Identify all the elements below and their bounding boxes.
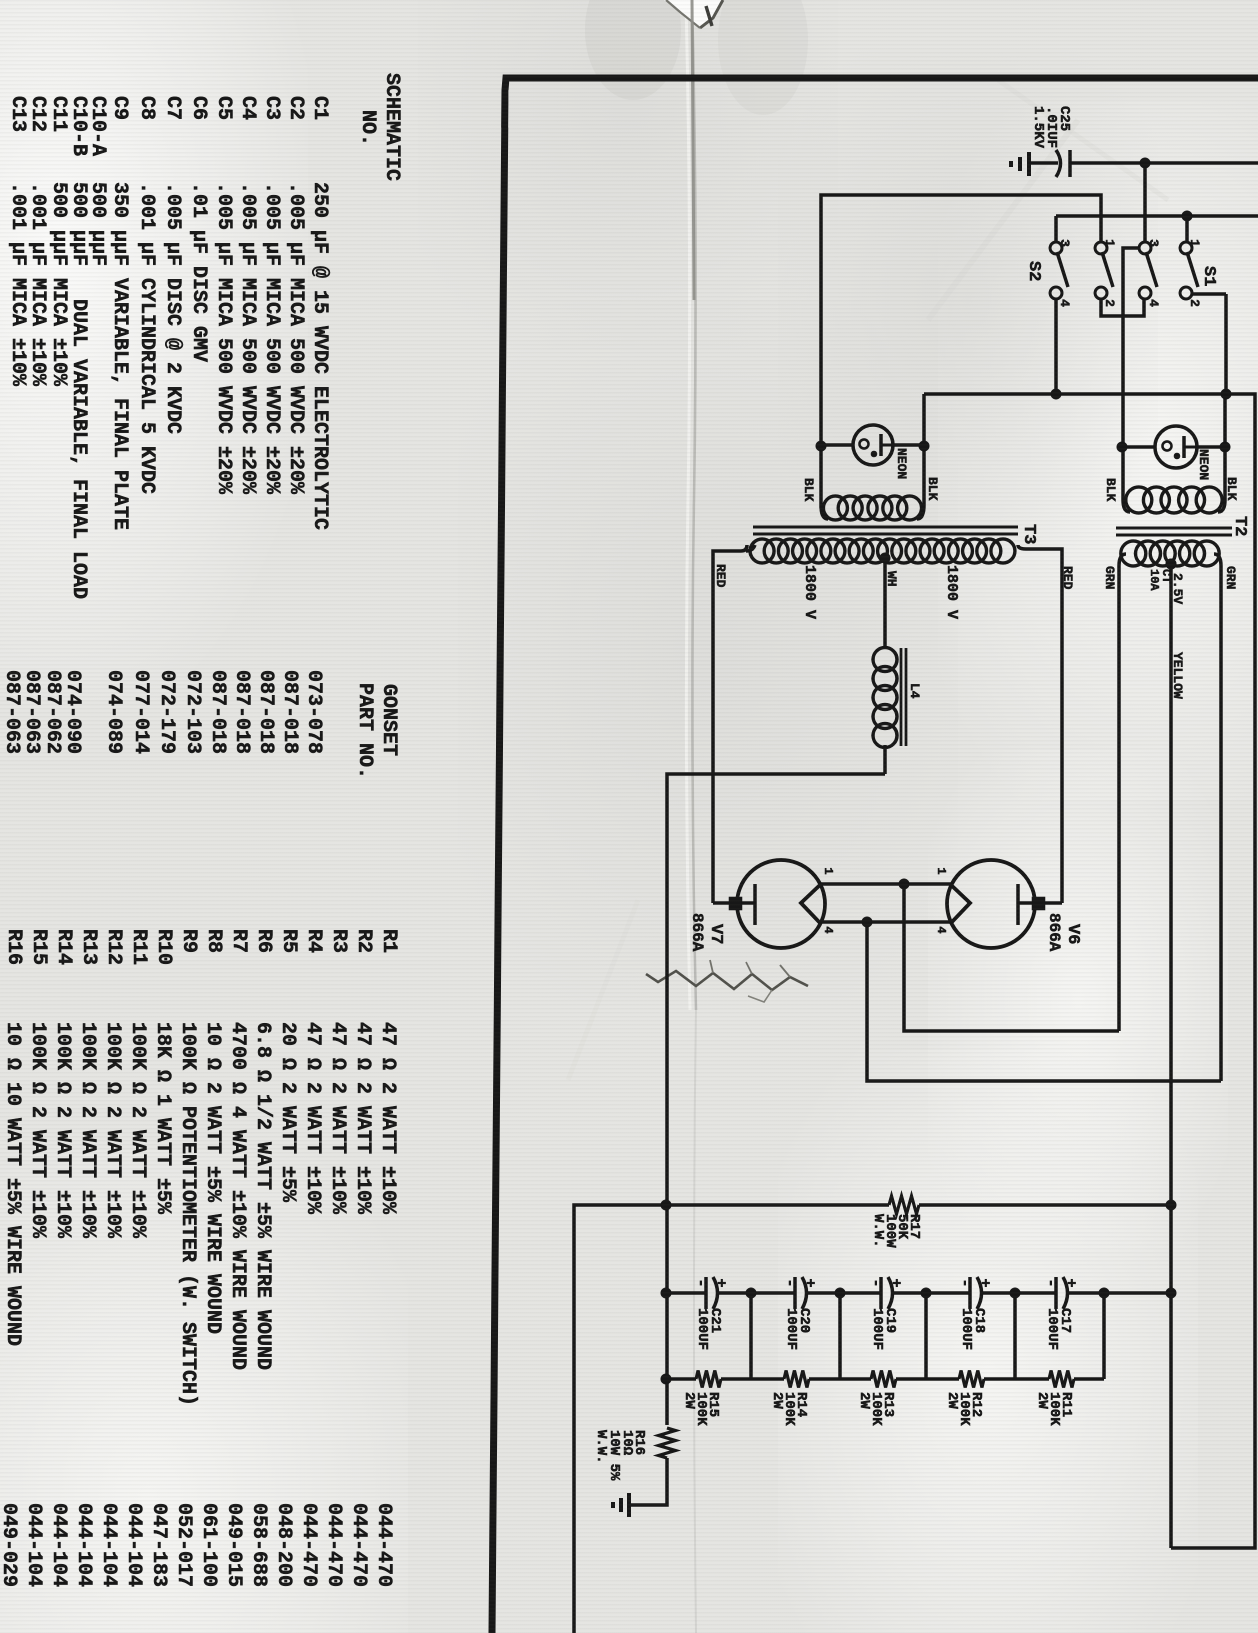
svg-text:10A: 10A: [1147, 569, 1161, 591]
svg-text:2W: 2W: [1034, 1392, 1050, 1409]
svg-text:.01 μF DISC GMV: .01 μF DISC GMV: [187, 182, 210, 362]
svg-text:044-470: 044-470: [372, 1503, 395, 1587]
svg-text:R2: R2: [352, 929, 375, 953]
svg-text:C12: C12: [26, 96, 49, 132]
svg-text:044-470: 044-470: [347, 1503, 370, 1587]
svg-text:V7: V7: [706, 924, 725, 944]
svg-text:R10: R10: [152, 929, 175, 965]
svg-text:C7: C7: [161, 96, 184, 120]
svg-text:YELLOW: YELLOW: [1170, 652, 1185, 699]
svg-text:100UF: 100UF: [1044, 1308, 1060, 1350]
svg-text:2W: 2W: [944, 1392, 960, 1409]
svg-text:044-470: 044-470: [322, 1503, 345, 1587]
svg-text:-: -: [781, 1278, 798, 1287]
svg-text:C8: C8: [135, 96, 158, 120]
svg-text:W.W.: W.W.: [870, 1214, 886, 1248]
svg-text:C11: C11: [47, 96, 70, 132]
svg-text:+: +: [887, 1278, 904, 1287]
svg-text:047-183: 047-183: [147, 1503, 170, 1587]
svg-text:.005 μF MICA 500 WVDC ±20%: .005 μF MICA 500 WVDC ±20%: [236, 182, 259, 495]
svg-text:2W: 2W: [856, 1392, 872, 1409]
svg-text:T2: T2: [1230, 516, 1249, 536]
svg-text:SCHEMATIC: SCHEMATIC: [380, 73, 403, 181]
svg-text:2W: 2W: [769, 1392, 785, 1409]
svg-text:L4: L4: [907, 683, 922, 699]
svg-text:C5: C5: [212, 96, 235, 120]
svg-text:100K Ω 2 WATT ±10%: 100K Ω 2 WATT ±10%: [101, 1022, 124, 1239]
svg-text:S2: S2: [1024, 261, 1043, 281]
svg-text:087-018: 087-018: [254, 670, 277, 754]
svg-text:NO.: NO.: [356, 110, 379, 146]
svg-text:W.W.: W.W.: [593, 1430, 609, 1464]
svg-text:866A: 866A: [1045, 913, 1063, 952]
svg-text:+: +: [976, 1278, 993, 1287]
svg-text:.001 μF MICA ±10%: .001 μF MICA ±10%: [6, 182, 29, 387]
svg-text:BLK: BLK: [925, 477, 940, 501]
svg-text:073-078: 073-078: [302, 670, 325, 754]
svg-text:1800 V: 1800 V: [943, 565, 960, 619]
svg-text:100K Ω 2 WATT ±10%: 100K Ω 2 WATT ±10%: [51, 1022, 74, 1239]
svg-text:R3: R3: [327, 929, 350, 953]
svg-text:100UF: 100UF: [783, 1308, 799, 1350]
svg-text:044-104: 044-104: [72, 1503, 95, 1587]
svg-text:4: 4: [934, 926, 948, 933]
svg-text:47 Ω 2 WATT ±10%: 47 Ω 2 WATT ±10%: [351, 1022, 374, 1215]
svg-text:V6: V6: [1063, 924, 1082, 944]
svg-text:500 μμF: 500 μμF: [67, 182, 90, 266]
svg-text:.001 μF CYLINDRICAL 5 KVDC: .001 μF CYLINDRICAL 5 KVDC: [135, 182, 158, 494]
svg-text:C9: C9: [108, 96, 131, 120]
svg-text:R12: R12: [102, 929, 125, 965]
svg-text:47 Ω 2 WATT ±10%: 47 Ω 2 WATT ±10%: [376, 1022, 399, 1215]
svg-text:.005 μF MICA 500 WVDC ±20%: .005 μF MICA 500 WVDC ±20%: [212, 182, 235, 495]
svg-text:+: +: [801, 1278, 818, 1287]
svg-text:866A: 866A: [688, 913, 706, 952]
svg-text:2: 2: [1102, 299, 1117, 307]
svg-text:47 Ω 2 WATT ±10%: 47 Ω 2 WATT ±10%: [301, 1022, 324, 1215]
svg-text:RED: RED: [713, 564, 728, 588]
svg-text:R6: R6: [252, 929, 275, 953]
svg-text:6.8 Ω 1/2 WATT ±5% WIRE WOUND: 6.8 Ω 1/2 WATT ±5% WIRE WOUND: [251, 1022, 274, 1370]
svg-text:GRN: GRN: [1102, 566, 1117, 589]
svg-text:R7: R7: [227, 929, 250, 953]
svg-text:1: 1: [1187, 239, 1202, 247]
svg-text:044-104: 044-104: [122, 1503, 145, 1587]
svg-text:2W: 2W: [681, 1392, 697, 1409]
svg-text:R8: R8: [202, 929, 225, 953]
svg-text:3: 3: [1057, 239, 1072, 247]
svg-text:C1: C1: [308, 96, 331, 120]
svg-text:087-063: 087-063: [20, 670, 43, 754]
svg-text:.005 μF MICA 500 WVDC ±20%: .005 μF MICA 500 WVDC ±20%: [284, 182, 307, 495]
svg-text:2: 2: [1187, 299, 1202, 307]
svg-text:074-090: 074-090: [61, 670, 84, 754]
svg-text:C4: C4: [236, 96, 259, 120]
svg-text:100K Ω 2 WATT ±10%: 100K Ω 2 WATT ±10%: [126, 1022, 149, 1239]
svg-text:044-104: 044-104: [97, 1503, 120, 1587]
svg-text:087-018: 087-018: [230, 670, 253, 754]
svg-text:+: +: [712, 1278, 729, 1287]
svg-text:R5: R5: [277, 929, 300, 953]
svg-text:100K Ω 2 WATT ±10%: 100K Ω 2 WATT ±10%: [26, 1022, 49, 1239]
svg-text:049-015: 049-015: [222, 1503, 245, 1587]
svg-text:10 Ω 2 WATT ±5% WIRE WOUND: 10 Ω 2 WATT ±5% WIRE WOUND: [201, 1022, 224, 1334]
svg-text:R16: R16: [2, 929, 25, 965]
svg-text:058-688: 058-688: [247, 1503, 270, 1587]
svg-text:100UF: 100UF: [869, 1308, 885, 1350]
svg-text:100K Ω POTENTIOMETER (W. SWITC: 100K Ω POTENTIOMETER (W. SWITCH): [176, 1022, 199, 1406]
svg-text:087-062: 087-062: [41, 670, 64, 754]
svg-text:20 Ω 2 WATT ±5%: 20 Ω 2 WATT ±5%: [276, 1022, 299, 1203]
svg-text:044-470: 044-470: [297, 1503, 320, 1587]
svg-text:044-104: 044-104: [22, 1503, 45, 1587]
svg-text:1: 1: [821, 867, 835, 874]
svg-text:048-200: 048-200: [272, 1503, 295, 1587]
svg-text:T3: T3: [1019, 524, 1038, 544]
svg-text:3: 3: [1146, 239, 1161, 247]
svg-text:BLK: BLK: [1103, 478, 1118, 502]
svg-text:077-014: 077-014: [129, 670, 152, 754]
svg-text:C2: C2: [284, 96, 307, 120]
svg-text:CT: CT: [1159, 569, 1173, 583]
svg-text:4: 4: [1146, 299, 1161, 307]
svg-text:.005 μF MICA 500 WVDC ±20%: .005 μF MICA 500 WVDC ±20%: [260, 182, 283, 495]
svg-text:1: 1: [934, 867, 948, 874]
svg-text:C13: C13: [6, 96, 29, 132]
svg-text:.001 μF MICA ±10%: .001 μF MICA ±10%: [26, 182, 49, 387]
svg-text:087-063: 087-063: [0, 670, 23, 754]
svg-text:350 μμF VARIABLE, FINAL PLATE: 350 μμF VARIABLE, FINAL PLATE: [108, 182, 131, 530]
svg-text:4700 Ω 4 WATT ±10% WIRE WOUND: 4700 Ω 4 WATT ±10% WIRE WOUND: [226, 1022, 249, 1370]
svg-text:049-029: 049-029: [0, 1503, 20, 1587]
svg-text:S1: S1: [1199, 266, 1218, 286]
svg-text:R11: R11: [127, 929, 150, 965]
svg-text:4: 4: [821, 926, 835, 933]
svg-text:C6: C6: [187, 96, 210, 120]
svg-text:PART NO.: PART NO.: [353, 683, 376, 779]
svg-text:10 Ω 10 WATT ±5% WIRE WOUND: 10 Ω 10 WATT ±5% WIRE WOUND: [1, 1022, 24, 1346]
svg-text:C3: C3: [260, 96, 283, 120]
svg-text:R4: R4: [302, 929, 325, 953]
svg-text:R13: R13: [77, 929, 100, 965]
svg-text:4: 4: [1057, 299, 1072, 307]
svg-text:NEON: NEON: [1196, 449, 1211, 480]
svg-text:R9: R9: [177, 929, 200, 953]
svg-text:-: -: [956, 1278, 973, 1287]
svg-text:GONSET: GONSET: [377, 684, 400, 756]
svg-text:072-103: 072-103: [181, 670, 204, 754]
svg-text:DUAL VARIABLE, FINAL LOAD: DUAL VARIABLE, FINAL LOAD: [67, 299, 90, 599]
svg-text:044-104: 044-104: [47, 1503, 70, 1587]
svg-text:087-018: 087-018: [278, 670, 301, 754]
svg-text:-: -: [692, 1278, 709, 1287]
svg-text:BLK: BLK: [801, 478, 816, 502]
svg-text:GRN: GRN: [1223, 566, 1238, 589]
svg-text:-: -: [1042, 1278, 1059, 1287]
svg-text:+: +: [1062, 1278, 1079, 1287]
svg-text:BLK: BLK: [1224, 477, 1239, 501]
svg-text:-: -: [867, 1278, 884, 1287]
svg-text:087-018: 087-018: [206, 670, 229, 754]
svg-text:074-089: 074-089: [102, 670, 125, 754]
svg-text:WH: WH: [884, 571, 899, 587]
svg-text:1800 V: 1800 V: [801, 565, 818, 619]
svg-text:NEON: NEON: [894, 448, 909, 479]
svg-text:100UF: 100UF: [694, 1308, 710, 1350]
svg-text:250 μF @ 15 WVDC ELECTROLYTIC: 250 μF @ 15 WVDC ELECTROLYTIC: [308, 182, 331, 530]
svg-text:R15: R15: [27, 929, 50, 965]
svg-text:100K Ω 2 WATT ±10%: 100K Ω 2 WATT ±10%: [76, 1022, 99, 1239]
svg-text:072-179: 072-179: [155, 670, 178, 754]
svg-text:RED: RED: [1060, 566, 1075, 590]
svg-text:C10-B: C10-B: [67, 96, 90, 156]
svg-text:1.5KV: 1.5KV: [1030, 106, 1046, 149]
svg-text:1: 1: [1102, 239, 1117, 247]
svg-text:18K Ω 1 WATT ±5%: 18K Ω 1 WATT ±5%: [151, 1022, 174, 1215]
svg-text:47 Ω 2 WATT ±10%: 47 Ω 2 WATT ±10%: [326, 1022, 349, 1215]
svg-text:.005 μF DISC @ 2 KVDC: .005 μF DISC @ 2 KVDC: [161, 182, 184, 434]
svg-text:R14: R14: [52, 929, 75, 965]
svg-text:052-017: 052-017: [172, 1503, 195, 1587]
svg-text:100UF: 100UF: [958, 1308, 974, 1350]
svg-text:R1: R1: [377, 929, 400, 953]
svg-text:061-100: 061-100: [197, 1503, 220, 1587]
